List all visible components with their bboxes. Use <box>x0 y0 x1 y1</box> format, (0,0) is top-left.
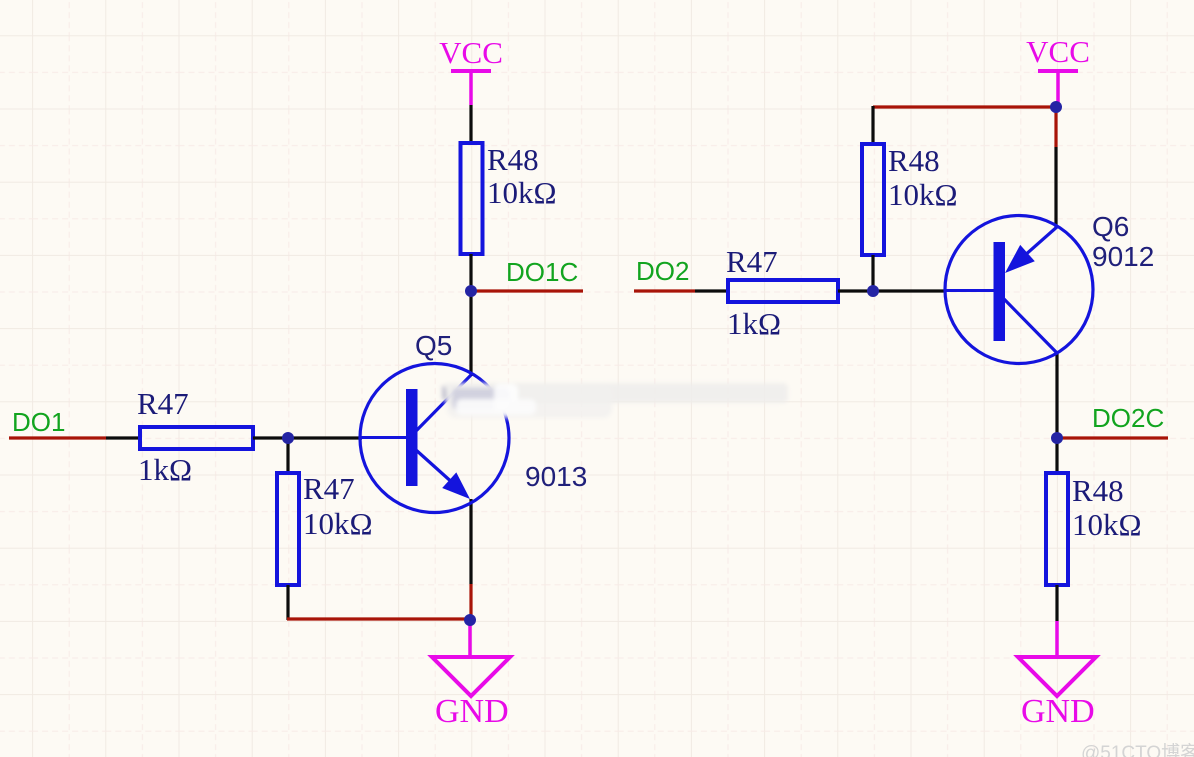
svg-text:R48: R48 <box>487 142 539 177</box>
Q6 emitter arrow <box>1005 245 1035 273</box>
svg-text:VCC: VCC <box>1026 34 1090 69</box>
wire R48 bottom to ground (right) <box>1055 585 1058 621</box>
Q5 base bar <box>406 389 418 486</box>
wire node down to R47 10k top <box>286 438 289 474</box>
resistor R47 1k (left) body <box>140 427 253 449</box>
svg-text:9013: 9013 <box>525 461 587 492</box>
wire Q5 emitter down (black) <box>469 499 472 584</box>
wire node to R48 bottom top pin <box>1055 438 1058 474</box>
ground symbol GND (right) <box>1018 657 1096 696</box>
wire R47 10k bottom <box>286 585 289 620</box>
svg-text:R47: R47 <box>303 471 355 506</box>
power port VCC (right) bar symbol <box>1038 69 1078 73</box>
svg-text:1kΩ: 1kΩ <box>727 306 781 341</box>
junction node DO1C <box>465 285 477 297</box>
wire to ground node (red) <box>287 617 470 620</box>
junction node base (right) <box>867 285 879 297</box>
svg-text:10kΩ: 10kΩ <box>1072 507 1142 542</box>
wire node to Q5 collector <box>469 291 472 376</box>
svg-text:VCC: VCC <box>439 35 503 70</box>
svg-text:10kΩ: 10kΩ <box>888 177 958 212</box>
wire DO2 to R47 left pin (right) <box>695 289 729 292</box>
junction node base divider <box>282 432 294 444</box>
wire net DO2C (red) <box>1057 436 1168 439</box>
svg-text:GND: GND <box>1021 693 1095 730</box>
resistor R47 1k (right) body <box>728 280 838 302</box>
ground symbol GND (left) <box>432 657 510 696</box>
wire Q6 collector down (black) <box>1055 353 1058 439</box>
Q5 base wire <box>361 436 406 439</box>
wire VCC horizontal (red) <box>873 105 1056 108</box>
resistor R48 (right bottom) body <box>1046 473 1068 585</box>
resistor R48 (left) body <box>461 143 483 254</box>
resistor R47 10k (left vertical) body <box>277 473 299 585</box>
Q5 body circle <box>360 364 509 513</box>
svg-text:DO1C: DO1C <box>506 257 578 287</box>
Q6 base wire <box>946 289 994 292</box>
wire net DO2 (red) <box>634 289 695 292</box>
svg-text:DO2C: DO2C <box>1092 403 1164 433</box>
junction node DO2C <box>1051 432 1063 444</box>
svg-text:Q5: Q5 <box>415 330 452 361</box>
power port VCC (left) stub <box>469 71 473 105</box>
svg-text:1kΩ: 1kΩ <box>138 452 192 487</box>
svg-text:@51CTO博客: @51CTO博客 <box>1081 742 1194 757</box>
svg-text:9012: 9012 <box>1092 241 1154 272</box>
wire VCC red to Q6 emitter join (black) <box>1054 147 1057 227</box>
svg-text:10kΩ: 10kΩ <box>487 175 557 210</box>
wire R48 bottom to base node <box>871 255 874 292</box>
wire emitter to ground node (red) <box>469 584 472 620</box>
junction node ground (left) <box>464 614 476 626</box>
Q5 emitter diagonal <box>416 450 455 485</box>
Q6 collector diagonal <box>1004 299 1058 354</box>
svg-text:R48: R48 <box>1072 473 1124 508</box>
power port VCC (right) stub <box>1056 71 1060 104</box>
svg-text:10kΩ: 10kΩ <box>303 506 373 541</box>
svg-text:R47: R47 <box>137 386 189 421</box>
wire R47 to Q5 base <box>253 436 362 439</box>
ground stub (left) <box>468 620 472 657</box>
Q6 emitter diagonal <box>1015 226 1058 264</box>
svg-text:R48: R48 <box>888 143 940 178</box>
Q6 body circle <box>945 216 1093 364</box>
transistor Q5 <box>360 364 509 513</box>
Q6 base bar <box>994 242 1006 341</box>
Q5 collector diagonal <box>416 375 471 431</box>
svg-text:Q6: Q6 <box>1092 211 1129 242</box>
junction node VCC (right) <box>1050 101 1062 113</box>
resistor R48 (middle) body <box>862 144 884 255</box>
wire DO1 to R47 left pin <box>106 436 141 439</box>
svg-text:DO1: DO1 <box>12 407 65 437</box>
wire R47 to Q6 base <box>838 289 946 292</box>
transistor Q6 <box>945 216 1093 364</box>
wire VCC down to emitter (red) <box>1054 107 1057 147</box>
wire VCC to R48 top <box>469 105 472 144</box>
wire net DO1C (red) <box>474 289 583 292</box>
power port VCC (left) bar symbol <box>451 69 491 73</box>
wire net DO1 (red) <box>9 436 106 439</box>
blurred watermark band <box>442 383 788 418</box>
svg-text:GND: GND <box>435 693 509 730</box>
ground stub (right) <box>1055 621 1059 657</box>
svg-text:R47: R47 <box>726 244 778 279</box>
Q5 emitter arrow <box>442 472 470 499</box>
wire R48 bottom to node DO1C <box>469 254 472 292</box>
wire down to R48 top (right) <box>871 106 874 145</box>
svg-text:DO2: DO2 <box>636 256 689 286</box>
